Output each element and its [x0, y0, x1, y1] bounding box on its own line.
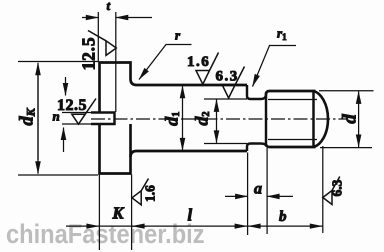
svg-text:chinaFastener.biz: chinaFastener.biz — [6, 220, 205, 250]
dimension d2 extension lines — [204, 99, 247, 144]
thread start face — [265, 93, 267, 146]
dimension t arrows — [82, 17, 98, 19]
svg-text:dK: dK — [17, 107, 37, 125]
dimension n lower arrow — [63, 137, 65, 152]
arrow K left — [86, 224, 99, 229]
dimension d1 arrows — [182, 86, 184, 119]
extension line shoulder end bottom — [247, 153, 249, 236]
dimension d extension lines — [319, 91, 374, 148]
arrow b left — [248, 224, 261, 229]
leader r1 — [253, 46, 297, 87]
arrow b right — [310, 224, 323, 229]
thread root line top — [268, 99, 317, 101]
dome end — [314, 91, 329, 147]
dimension n upper arrow — [65, 77, 67, 85]
svg-text:r1: r1 — [277, 26, 287, 43]
svg-text:1.6: 1.6 — [187, 54, 210, 70]
roughness 12.5 head top symbol — [88, 31, 116, 56]
head-to-shank fillet r bottom — [131, 151, 137, 157]
roughness 6.3 at thread end — [323, 177, 340, 205]
watermark chinaFastener.biz — [6, 220, 205, 250]
dimension d2 arrows — [216, 99, 218, 119]
arrow K right / l left — [132, 224, 145, 229]
svg-text:b: b — [279, 209, 287, 225]
dimension line K l b — [66, 225, 147, 227]
svg-text:l: l — [188, 206, 193, 225]
svg-text:1.6: 1.6 — [143, 185, 158, 202]
thread top edge — [266, 91, 316, 95]
dimension t extension lines — [98, 12, 116, 112]
svg-text:12.5: 12.5 — [57, 97, 87, 114]
roughness 1.6 on shank — [196, 53, 219, 85]
shoulder end face top with fillet r1 — [247, 85, 266, 99]
svg-text:12.5: 12.5 — [79, 37, 99, 71]
svg-text:r: r — [175, 28, 181, 43]
screw head outline — [100, 63, 131, 174]
shank d1 bottom edge — [137, 150, 248, 153]
extension line thread start bottom — [266, 148, 268, 234]
extension line head left bottom — [98, 175, 100, 251]
dimension dK extension lines — [18, 62, 98, 176]
shoulder end face bottom with fillet r1 — [247, 144, 266, 152]
head slot (side view) — [91, 113, 115, 125]
centerline — [91, 118, 347, 120]
head-to-shank fillet r top — [131, 79, 137, 85]
svg-text:d: d — [340, 114, 361, 124]
slot extension lines for n — [62, 113, 100, 125]
svg-text:d1: d1 — [161, 112, 182, 126]
leader r — [139, 45, 192, 80]
svg-text:6.3: 6.3 — [330, 179, 345, 196]
dimension d arrows — [358, 91, 360, 119]
svg-text:K: K — [112, 204, 125, 223]
svg-text:6.3: 6.3 — [216, 68, 239, 84]
roughness 12.5 slot symbol — [72, 99, 96, 125]
thread bottom edge — [266, 144, 316, 147]
roughness 6.3 on neck — [222, 67, 245, 99]
dimension dK arrows — [37, 63, 39, 119]
dimension a line and arrows — [225, 195, 248, 197]
extension line thread end bottom — [322, 146, 324, 233]
arrow l right — [235, 224, 248, 229]
svg-text:t: t — [107, 0, 111, 13]
svg-text:d2: d2 — [192, 111, 213, 125]
svg-text:a: a — [254, 181, 262, 198]
thread root line bottom — [268, 139, 317, 141]
shank d1 top edge — [137, 84, 248, 87]
roughness 1.6 under head — [132, 179, 149, 205]
extension line head right bottom — [131, 175, 133, 251]
